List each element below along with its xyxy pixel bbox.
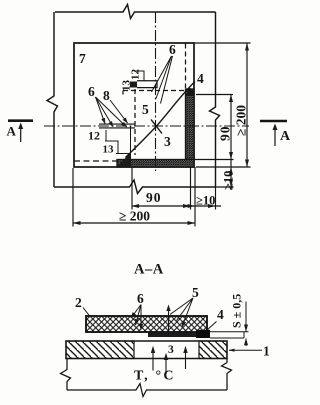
break frame below section: [61, 359, 71, 391]
arrows 200 bottom: [73, 221, 195, 225]
dimension line 90 and >=10 bottom: [132, 205, 222, 207]
weld seam 4 vertical strip: [186, 88, 195, 160]
leader to label 1: [229, 349, 262, 351]
outer sheet 7 right edge with break: [210, 12, 220, 187]
bracket step 12 (lower left): [105, 130, 118, 154]
svg-text:8: 8: [103, 88, 110, 103]
svg-text:4: 4: [217, 307, 224, 322]
thermocouple axis line in section: [168, 307, 170, 337]
centre line horizontal: [44, 125, 249, 127]
svg-text:1: 1: [263, 344, 270, 359]
svg-text:A–A: A–A: [134, 262, 164, 278]
svg-text:Т, °С: Т, °С: [134, 369, 176, 384]
extension lines right: [194, 43, 251, 187]
leader from label 2: [83, 308, 90, 317]
svg-text:≥10: ≥10: [196, 194, 215, 208]
S dimension line: [245, 302, 247, 347]
hidden pad outline dashed vertical (above weld strip): [185, 44, 187, 89]
svg-text:A: A: [7, 124, 17, 139]
svg-text:12: 12: [130, 69, 142, 81]
leader line from label 8: [110, 100, 128, 123]
outer sheet 7 top edge with break: [55, 5, 216, 19]
svg-text:5: 5: [192, 285, 199, 300]
section marker A left: [8, 121, 33, 142]
thermocouple wires: [99, 124, 135, 128]
svg-text:3: 3: [164, 134, 171, 149]
construction hatch left segment: [66, 341, 134, 359]
hidden pad small dashed step: [122, 91, 124, 98]
hidden edge dashed along bottom: [74, 160, 118, 162]
centre line vertical: [155, 12, 157, 171]
svg-text:3: 3: [168, 344, 174, 356]
leader lines from label 6 top: [152, 56, 173, 104]
bracket step 13 (lower left): [116, 127, 131, 162]
plate 3 square outline: [74, 43, 194, 167]
leader lines from label 6 left: [96, 97, 106, 124]
svg-text:≥ 200: ≥ 200: [234, 105, 249, 136]
dimension line 90 / >=10 right: [230, 95, 232, 191]
wire diagonal to weld: [126, 82, 196, 158]
svg-text:5: 5: [142, 102, 149, 117]
junction pad open rect: [137, 81, 157, 88]
leader from label 4 section: [208, 322, 217, 330]
outer sheet 7 left edge with break: [47, 12, 58, 187]
T arrows heat flux: [153, 349, 186, 374]
construction 1 bar outline: [66, 341, 227, 359]
weld seam 4 horizontal strip: [117, 160, 194, 168]
extension lines bottom: [73, 167, 216, 227]
svg-text:S ± 0,5: S ± 0,5: [230, 294, 244, 328]
arrows 200 right: [245, 43, 249, 167]
svg-text:≥10: ≥10: [222, 171, 236, 190]
outer sheet 7 bottom edge with break: [54, 180, 216, 194]
steel plate dark band: [148, 332, 196, 337]
construction hatch right block: [199, 341, 227, 359]
svg-text:≥ 200: ≥ 200: [119, 209, 150, 224]
mini bracket for 12: [134, 71, 144, 81]
svg-text:90: 90: [146, 190, 162, 205]
weld 4 black block: [196, 330, 210, 338]
svg-text:13: 13: [103, 144, 115, 156]
svg-text:A: A: [280, 129, 290, 144]
svg-text:2: 2: [75, 295, 82, 310]
svg-text:90: 90: [218, 126, 233, 142]
section marker A right: [260, 121, 287, 146]
hidden pad outline dashed horizontal: [123, 90, 185, 92]
leaders from label 6 section: [131, 305, 141, 319]
svg-text:4: 4: [197, 71, 204, 86]
weld seam 4 start blob: [118, 152, 132, 167]
svg-text:12: 12: [88, 129, 100, 143]
arrows bottom dim: [132, 204, 216, 208]
svg-text:6: 6: [88, 84, 95, 99]
leaders from label 5 section: [170, 298, 193, 327]
svg-text:6: 6: [137, 291, 144, 306]
arrows right dim: [229, 95, 233, 188]
junction pad filled rect: [130, 82, 137, 88]
junction cross stroke: [151, 120, 162, 134]
svg-text:6: 6: [169, 42, 176, 57]
hidden pad outline dashed vertical mid: [134, 89, 136, 155]
plate edge strip right: [210, 332, 249, 338]
insulation pad 2 crosshatched: [86, 316, 207, 332]
dimension line >=200 bottom: [73, 222, 195, 224]
svg-text:13: 13: [121, 80, 133, 92]
svg-text:7: 7: [79, 51, 86, 66]
dimension line >=200 right: [246, 43, 248, 167]
